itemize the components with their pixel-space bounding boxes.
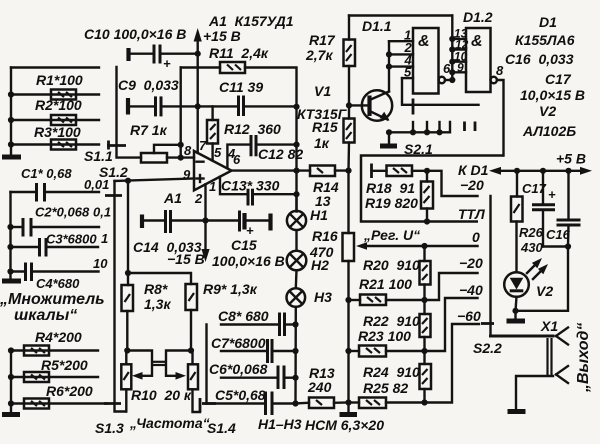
svg-text:+: + (163, 56, 171, 71)
svg-text:К155ЛА6: К155ЛА6 (515, 32, 575, 48)
wire H3 down (294, 307, 297, 404)
svg-text:R3*100: R3*100 (34, 124, 81, 140)
wire D1.2 output down to TTL box (497, 80, 504, 156)
wire D1.1 out to D1.2 in (445, 79, 452, 81)
svg-text:−15 В: −15 В (167, 251, 205, 267)
capacitor C17 (532, 171, 555, 247)
wire output column upper (295, 107, 297, 212)
ground R4-R6 rail (2, 412, 20, 417)
wire C2 right stub (31, 226, 99, 228)
svg-text:D1: D1 (539, 14, 557, 30)
node tap -60 (421, 399, 427, 405)
wire D1.2 stub10 (452, 61, 466, 63)
resistor R3 (51, 140, 76, 150)
svg-text:АЛ102Б: АЛ102Б (522, 123, 576, 139)
svg-text:шкалы“: шкалы“ (14, 307, 77, 324)
node S2.1 c (436, 129, 442, 135)
wire D1.2 stub13 (452, 38, 466, 40)
node rail C16 (565, 168, 571, 174)
wire C6 right (284, 377, 296, 379)
node D1.2 pin10 (449, 59, 455, 65)
node R23 tap (345, 348, 351, 354)
svg-text:R4*200: R4*200 (35, 329, 82, 345)
svg-text:D1.2: D1.2 (463, 9, 493, 25)
svg-text:10: 10 (93, 256, 108, 271)
output bubble D1.2 pin8 (491, 77, 497, 83)
svg-text:D1.1: D1.1 (362, 18, 392, 34)
capacitor C10 terminal bar (126, 48, 130, 61)
wire S2.1 common bus (389, 122, 450, 132)
wire C14 left (142, 219, 166, 221)
svg-text:2,7к: 2,7к (305, 47, 333, 63)
arrowhead R10 left wiper (132, 372, 143, 380)
svg-text:„Частота“: „Частота“ (129, 415, 210, 431)
svg-text:R24 910: R24 910 (363, 364, 420, 380)
wire C7 row (221, 350, 268, 352)
capacitor C9 terminal bar (126, 98, 130, 115)
logic gate D1.1 (413, 28, 439, 94)
wire C17 to C16 bottom (543, 245, 568, 247)
wire C5 row (207, 402, 266, 404)
svg-text:0,1: 0,1 (93, 205, 111, 220)
svg-text:С10 100,0×16 В: С10 100,0×16 В (84, 26, 186, 42)
svg-text:R19 820: R19 820 (365, 195, 418, 211)
capacitor C9 (156, 96, 162, 116)
wire op-amp output (232, 169, 311, 171)
wire R11 right to output column (245, 68, 297, 107)
svg-text:R12 360: R12 360 (224, 121, 281, 137)
node S2.1 b (424, 129, 430, 135)
ground R16 chain (340, 403, 358, 415)
wire C9 right (161, 105, 198, 107)
wire pin1 to C13 (220, 177, 248, 195)
potentiometer R16 (343, 233, 355, 261)
resistor R8 (122, 285, 134, 311)
capacitor C10 (154, 45, 160, 64)
resistor R15 (344, 105, 355, 170)
wire D1.1 input pin5 (402, 77, 413, 79)
wire pin9 net down column (127, 181, 129, 285)
svg-text:А1 К157УД1: А1 К157УД1 (208, 13, 294, 29)
svg-text:1: 1 (101, 231, 108, 246)
node R18/R19 (424, 168, 430, 174)
arrows LED emission (527, 258, 548, 279)
node C11/output column (293, 104, 299, 110)
svg-text:С5*0,68: С5*0,68 (215, 387, 266, 403)
node pin2 (202, 217, 208, 223)
resistor R6 (24, 399, 49, 409)
wire R11 left corner (181, 66, 220, 68)
svg-text:+: + (246, 223, 254, 238)
resistor R22 (420, 300, 431, 351)
switch S2.1 stub c (438, 122, 440, 132)
switch S1.4 wiper bus (205, 325, 207, 404)
capacitor C15 terminal bar (268, 214, 272, 231)
capacitor C7 (268, 339, 273, 363)
node rail-C4 (7, 268, 13, 274)
resistor R2 (51, 115, 76, 125)
wire V1 collector riser (388, 41, 390, 91)
wire R13 right (334, 401, 349, 404)
wire R4-R6 rail (10, 351, 12, 412)
svg-text:С7*6800: С7*6800 (211, 335, 266, 351)
node LED bottom (512, 308, 518, 314)
wire C2 row (11, 226, 24, 228)
wire D1.2 stub9 (452, 71, 466, 73)
mechanical link R10 (153, 362, 167, 365)
node C6/lamp column (292, 375, 298, 381)
svg-text:R26: R26 (519, 225, 544, 240)
svg-text:ТТЛ: ТТЛ (458, 206, 485, 222)
wire tap -60 riser (425, 324, 480, 403)
svg-text:R21 100: R21 100 (359, 276, 412, 292)
wire C11 left (198, 105, 239, 107)
wire R16 bottom chain (347, 261, 349, 403)
svg-text:Н1–Н3: Н1–Н3 (258, 416, 302, 432)
capacitor C12 (251, 135, 256, 156)
node rail-C3 (7, 244, 13, 250)
wire R8 bottom lead (126, 311, 128, 351)
wire top rail R17 to D1.2 inputs (349, 14, 452, 16)
svg-text:R16: R16 (312, 228, 338, 244)
connector X1 lower contact (556, 366, 568, 383)
svg-text:5: 5 (214, 145, 222, 160)
wire D1.1 input pin1 (389, 40, 413, 42)
connector X1 upper contact (556, 328, 568, 345)
wiper R16 Reg U arrow (356, 242, 478, 250)
resistor R4 (24, 346, 49, 356)
wire C8 right (285, 323, 296, 325)
node C13/output column (293, 191, 299, 197)
switch S2.2 wiper bus (489, 196, 491, 336)
svg-text:&: & (418, 33, 430, 50)
svg-text:С16 0,033: С16 0,033 (505, 51, 574, 67)
svg-text:+: + (548, 187, 556, 202)
wire C8 row (221, 323, 280, 325)
node tap -20 (421, 297, 427, 303)
svg-text:R1*100: R1*100 (36, 72, 83, 88)
svg-text:R7 1к: R7 1к (130, 122, 168, 138)
svg-text:2: 2 (194, 191, 203, 206)
svg-text:R20 910: R20 910 (363, 257, 420, 273)
wire to H1 (295, 194, 297, 211)
capacitor C4 (26, 263, 32, 282)
wire D1.1 input pin2 (389, 53, 413, 55)
wire R10 right wiper (166, 351, 191, 376)
svg-text:8: 8 (496, 63, 504, 78)
svg-text:R5*200: R5*200 (41, 357, 88, 373)
resistor R5 (24, 372, 49, 382)
svg-text:„Выход“: „Выход“ (575, 323, 592, 393)
resistor R21 (349, 295, 425, 306)
wire C13 right (253, 193, 297, 195)
svg-text:240: 240 (307, 379, 332, 395)
node C7/lamp column (292, 348, 298, 354)
wire R5 row (11, 376, 98, 378)
node rail-R2 (8, 117, 14, 123)
node C12/output column (293, 142, 299, 148)
node rail-R6 (8, 400, 14, 406)
node R10 right top (188, 347, 194, 353)
svg-text:V2: V2 (539, 103, 556, 119)
wire D1.2 stub12 (452, 48, 466, 50)
wire R7 to pin8 (167, 156, 194, 158)
resistor R24 (420, 351, 432, 403)
potentiometer R10 right section (188, 364, 198, 389)
capacitor C8 (280, 313, 285, 337)
resistor R13 (309, 398, 334, 409)
svg-text:С17: С17 (522, 181, 547, 196)
svg-text:&: & (471, 33, 483, 50)
wire C3 right stub (46, 246, 98, 248)
node R8 top / R9 branch (125, 270, 131, 276)
switch S2.1 open dash e (474, 122, 477, 132)
node output column (293, 168, 299, 174)
svg-text:С1* 0,68: С1* 0,68 (21, 166, 72, 181)
ground left rail top (2, 155, 21, 160)
svg-text:S1.1: S1.1 (84, 148, 113, 164)
svg-text:+15 В: +15 В (203, 28, 241, 44)
capacitor C11 (239, 96, 244, 117)
switch S2.1 stub a (412, 122, 414, 132)
node rail-C2 (7, 224, 13, 230)
wire R10 left bottom lead (125, 389, 127, 411)
resistor R26 (511, 171, 523, 222)
svg-text:R11 2,4к: R11 2,4к (209, 45, 269, 61)
wire D1.1 input pin4 (389, 65, 413, 67)
node rail-R1 (8, 91, 14, 97)
wire output heavy (491, 335, 554, 338)
node rail-R5 (8, 374, 14, 380)
svg-text:V2: V2 (536, 283, 553, 299)
ground X1 (508, 409, 526, 414)
node bias R7 top (178, 142, 184, 148)
svg-text:−20: −20 (459, 255, 483, 271)
svg-text:1: 1 (209, 179, 216, 194)
switch S1.1 bridge (107, 144, 126, 147)
lamp H3 (287, 288, 306, 307)
op-amp A1 (194, 151, 232, 190)
resistor R12 (207, 120, 218, 144)
ground C-bank rail (2, 279, 21, 284)
wire R9 bottom lead (190, 310, 192, 351)
switch S1 wiper bus S1.2-S1.3 (115, 181, 127, 412)
capacitor C5 (266, 392, 273, 416)
resistor R1 (51, 90, 76, 100)
node V1 base (346, 102, 352, 108)
node C5/lamp column (292, 400, 298, 406)
wire C4 row (11, 270, 26, 272)
capacitor C14 (166, 210, 171, 233)
lamp H2 (287, 251, 307, 271)
wire R10 left wiper (127, 351, 152, 376)
svg-text:С16: С16 (546, 227, 571, 242)
node tap -40 (421, 348, 427, 354)
wire top row S1.1 position 1 (11, 66, 99, 68)
svg-text:R10 20 к: R10 20 к (131, 387, 192, 403)
svg-text:100,0×16 В: 100,0×16 В (212, 253, 285, 269)
svg-text:7: 7 (199, 138, 207, 153)
ground V1 emitter (380, 132, 397, 146)
svg-text:R23 100: R23 100 (358, 328, 411, 344)
svg-text:9: 9 (457, 61, 464, 75)
svg-text:R25 82: R25 82 (363, 380, 408, 396)
svg-text:−40: −40 (459, 282, 483, 298)
wire C4 right stub (32, 270, 99, 272)
wire H1-H2 (295, 230, 297, 251)
wire R3 row (11, 143, 99, 145)
resistor R7 (141, 153, 167, 163)
wire C-bank left rail (9, 192, 11, 278)
box TTL section (361, 156, 504, 222)
wire C1 right stub (45, 191, 100, 193)
node rail-R4 (8, 347, 14, 353)
node pin2 (386, 51, 392, 57)
svg-text:6: 6 (233, 152, 241, 167)
svg-text:R22 910: R22 910 (363, 313, 420, 329)
capacitor C6 (278, 366, 284, 390)
svg-text:С3*6800: С3*6800 (46, 232, 97, 247)
svg-text:1,3к: 1,3к (144, 296, 171, 312)
ground LED (507, 311, 526, 321)
wire pin9 (115, 179, 195, 182)
svg-text:К D1: К D1 (458, 162, 489, 178)
capacitor C3 (40, 238, 47, 257)
switch S2.1 contact tick (412, 99, 415, 115)
transistor V1 (349, 90, 392, 120)
node C8/lamp column (292, 321, 298, 327)
svg-text:5: 5 (404, 65, 412, 80)
wire pin2 lead (204, 184, 206, 220)
node pin7/C9/C11 (195, 103, 201, 109)
svg-text:X1: X1 (540, 318, 558, 334)
wire D1.2 input bus (451, 16, 453, 81)
potentiometer R10 left section (121, 364, 131, 389)
wire tap -40 riser (425, 298, 478, 351)
svg-text:−60: −60 (457, 308, 481, 324)
node R10 left top (124, 347, 130, 353)
wire TTL -20 output (427, 171, 478, 196)
wire X1 shield to ground (516, 376, 553, 409)
switch S1.3 bridge (104, 402, 121, 405)
wire node down to R16 (347, 171, 349, 233)
node R19 bottom (424, 218, 430, 224)
svg-text:Н3: Н3 (314, 289, 332, 305)
svg-text:КТ315Г: КТ315Г (297, 106, 348, 122)
svg-text:„Множитель: „Множитель (0, 291, 105, 308)
svg-text:А1: А1 (163, 190, 182, 206)
node V1 emitter (386, 129, 392, 135)
wire R4 row (11, 349, 98, 351)
wire C1 row (11, 191, 37, 193)
node pin4 (386, 64, 392, 70)
svg-text:С6*0,068: С6*0,068 (209, 361, 268, 377)
svg-text:470: 470 (309, 244, 334, 260)
svg-text:R2*100: R2*100 (35, 97, 82, 113)
contact bar R18 input (370, 164, 373, 179)
wire R13 left (296, 402, 310, 405)
wire bypass down (516, 247, 569, 311)
switch S1.4 bridge (202, 402, 216, 405)
switch S1.2 bridge (105, 194, 122, 197)
svg-text:0: 0 (472, 229, 480, 245)
wire R12 top lead (211, 106, 213, 120)
wire C14 right to pin2 node (171, 219, 206, 221)
wire gate pin5 branch (402, 78, 479, 105)
svg-text:V1: V1 (314, 83, 331, 99)
svg-text:С17: С17 (545, 71, 572, 87)
wire R1 row (11, 93, 99, 95)
svg-text:0,01: 0,01 (84, 177, 109, 192)
power -15V arrow (201, 221, 209, 263)
svg-text:S2.2: S2.2 (473, 340, 502, 356)
resistor R23 (349, 346, 425, 357)
node rail R26 (514, 168, 520, 174)
wire C10 right to +15V node (160, 53, 198, 55)
svg-text:R8*: R8* (144, 281, 168, 297)
svg-text:С8* 680: С8* 680 (218, 308, 269, 324)
output bubble D1.1 pin6 (439, 77, 445, 83)
resistor R20 (420, 246, 431, 300)
wire C5 right (272, 402, 296, 404)
svg-text:С9 0,033: С9 0,033 (118, 77, 179, 93)
wire C3 row (11, 246, 40, 248)
wire +5V rail with arrows (489, 167, 592, 175)
wire C10 left (129, 53, 155, 55)
wire R14 to node (335, 169, 349, 171)
node rail-R3 (8, 141, 14, 147)
svg-text:НСМ 6,3×20: НСМ 6,3×20 (305, 417, 384, 433)
node C16/C17 (565, 243, 571, 249)
node bias pin8 (178, 155, 184, 161)
resistor R19 (421, 171, 433, 222)
svg-text:„Рег. U“: „Рег. U“ (363, 227, 420, 243)
wire H2-H3 (295, 270, 298, 288)
node V1 base divider (345, 168, 351, 174)
wire R10 left top lead (125, 351, 127, 365)
logic gate D1.2 (466, 28, 491, 92)
switch S2.2 bridge (481, 322, 494, 325)
wire R7 top tap (154, 145, 181, 153)
svg-text:R17: R17 (309, 32, 336, 48)
switch S1.1 wiper bus (117, 67, 142, 158)
wire R9 branch (128, 273, 191, 284)
svg-text:R9* 1,3к: R9* 1,3к (203, 281, 258, 297)
svg-text:−20: −20 (460, 177, 484, 193)
capacitor C14 terminal bar (140, 215, 144, 229)
svg-text:8: 8 (184, 143, 192, 158)
wire C6 row (221, 377, 278, 379)
resistor R9 (186, 284, 198, 310)
resistor R25 (349, 398, 425, 409)
node +15V (195, 51, 201, 57)
svg-text:R18 91: R18 91 (366, 180, 415, 196)
capacitor C1 (37, 183, 45, 202)
node tap 0 (421, 243, 427, 249)
svg-text:R6*200: R6*200 (46, 383, 93, 399)
svg-text:13: 13 (315, 193, 331, 209)
wire R10 right bottom lead (193, 389, 201, 412)
wire pin4 riser (227, 145, 251, 168)
resistor R17 (344, 16, 356, 106)
wire left rail R1-R3 (10, 68, 12, 155)
node D1.2 pin9 (449, 69, 455, 75)
wire R10 right top lead (191, 351, 193, 365)
switch S1.1 contact dash (107, 141, 110, 150)
svg-text:S1.3: S1.3 (95, 420, 124, 436)
capacitor C16 (557, 171, 581, 247)
LED V2 (504, 222, 529, 311)
